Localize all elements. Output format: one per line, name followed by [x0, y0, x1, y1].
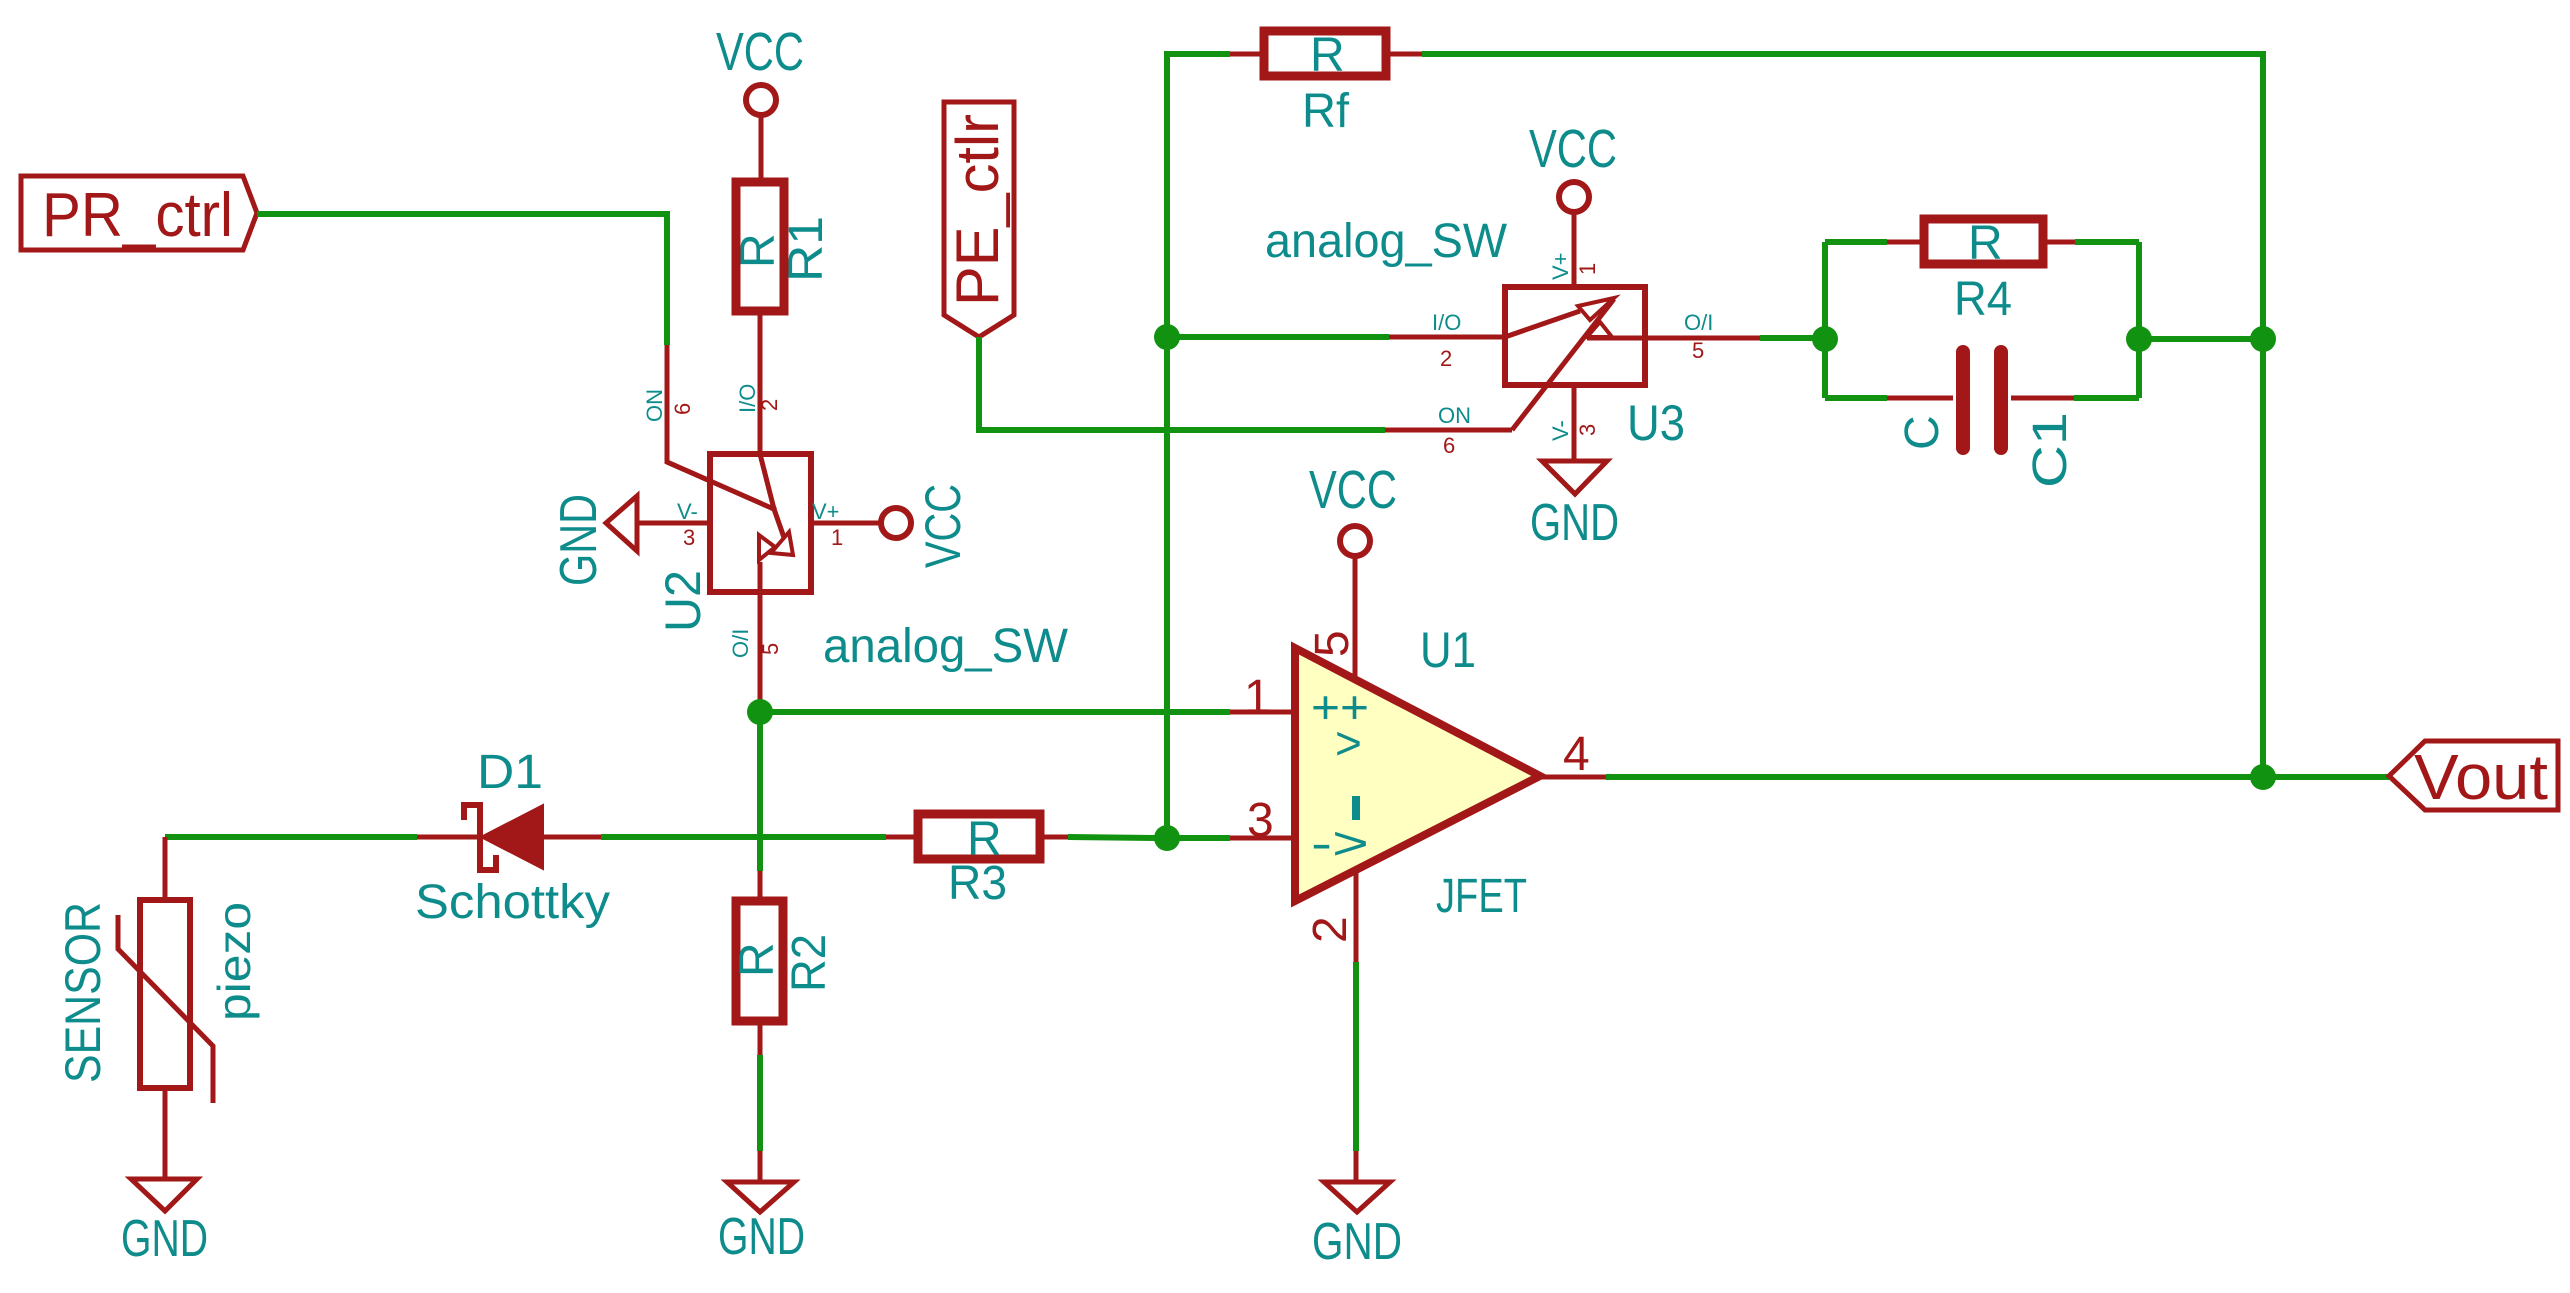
analog switch U2: [667, 454, 811, 592]
svg-text:JFET: JFET: [1436, 870, 1527, 923]
vertical wire Rf column: [1167, 54, 1230, 838]
wire PE_ctlr to U3 pin6: [979, 337, 1385, 430]
svg-text:V+: V+: [812, 499, 840, 524]
svg-text:VCC: VCC: [716, 22, 804, 82]
wire right node to rail: [2139, 336, 2263, 342]
R4/C1 right branch: [2136, 242, 2142, 398]
U2 pin6 stub: [667, 345, 776, 510]
gnd symbol under U3: [1530, 461, 1619, 552]
svg-text:GND: GND: [1312, 1213, 1402, 1271]
svg-text:ON: ON: [1438, 403, 1471, 428]
wire sensor to D1 to R3: [165, 834, 417, 840]
U1 pin1 stub: [1230, 710, 1295, 715]
svg-text:6: 6: [1443, 433, 1455, 458]
svg-text:R2: R2: [783, 934, 836, 992]
svg-text:5: 5: [1692, 338, 1704, 363]
diode D1 schottky: [415, 746, 610, 929]
svg-text:Schottky: Schottky: [415, 876, 610, 929]
wire Rf to right rail: [1422, 54, 2263, 765]
gnd symbol under U1: [1312, 1151, 1402, 1271]
svg-text:Vout: Vout: [2414, 741, 2548, 813]
power symbol VCC at U2 pin1: [881, 484, 971, 568]
C1 branch wires: [1825, 395, 1887, 401]
junction node output/right rail: [2250, 764, 2276, 790]
svg-text:GND: GND: [121, 1210, 208, 1268]
svg-text:C: C: [1896, 415, 1949, 450]
svg-text:U2: U2: [655, 570, 711, 632]
net label Vout: [2389, 741, 2558, 813]
junction node at U2 pin5: [747, 699, 773, 725]
U3 pin3 wire: [1572, 385, 1577, 461]
svg-text:analog_SW: analog_SW: [823, 620, 1069, 673]
wire U3 pin2 from node: [1167, 334, 1389, 340]
svg-text:I/O: I/O: [1432, 310, 1461, 335]
svg-text:->: ->: [1311, 817, 1369, 869]
wire R2 to gnd: [757, 1055, 763, 1151]
svg-text:R: R: [1310, 29, 1345, 82]
op-amp U1: [1295, 648, 1540, 901]
analog switch U3: [1505, 287, 1645, 430]
svg-text:R: R: [731, 942, 784, 977]
wire node to U1 pin1: [760, 709, 1230, 715]
junction node left: [1812, 326, 1838, 352]
svg-text:SENSOR: SENSOR: [55, 902, 111, 1083]
wire R1 bottom to U2 pin2: [758, 315, 763, 454]
svg-text:1: 1: [1244, 671, 1271, 724]
U3 pin6 stub: [1385, 428, 1512, 433]
power symbol VCC above U1: [1309, 460, 1397, 556]
wire node down to R2: [757, 712, 763, 871]
resistor R2: [731, 871, 836, 1055]
svg-text:VCC: VCC: [1529, 119, 1617, 179]
svg-text:V-: V-: [1548, 420, 1573, 441]
svg-text:V+: V+: [1548, 252, 1573, 280]
svg-text:3: 3: [1247, 794, 1274, 847]
U2 pin1 wire: [811, 521, 881, 526]
wire node to U1 pin3: [1167, 835, 1230, 841]
svg-text:GND: GND: [550, 494, 608, 586]
svg-text:O/I: O/I: [728, 629, 753, 658]
svg-text:VCC: VCC: [1309, 460, 1397, 520]
U3 pin5 stub: [1645, 336, 1760, 341]
svg-text:Rf: Rf: [1302, 85, 1350, 138]
power symbol VCC above R1: [716, 22, 804, 180]
wire rail to output node: [2260, 339, 2266, 777]
svg-text:GND: GND: [718, 1208, 805, 1266]
junction node rail: [2250, 326, 2276, 352]
svg-text:O/I: O/I: [1684, 310, 1713, 335]
junction node Rf column / U3 pin2: [1154, 324, 1180, 350]
svg-text:4: 4: [1563, 728, 1590, 781]
resistor R1: [732, 182, 833, 311]
svg-text:2: 2: [1440, 346, 1452, 371]
U1 pin2 wire: [1354, 870, 1359, 962]
svg-text:piezo: piezo: [208, 902, 260, 1021]
svg-text:ON: ON: [642, 389, 667, 422]
junction node right: [2126, 326, 2152, 352]
svg-text:U3: U3: [1627, 395, 1685, 451]
svg-text:R1: R1: [780, 216, 833, 282]
wire U3 pin5 to R4/C1 left node: [1760, 335, 1825, 341]
svg-text:5: 5: [758, 643, 783, 655]
svg-text:2: 2: [1304, 916, 1357, 943]
svg-text:GND: GND: [1530, 494, 1619, 552]
resistor R3: [886, 813, 1068, 910]
svg-text:U1: U1: [1420, 622, 1476, 678]
net label PR_ctrl: [21, 176, 257, 250]
gnd symbol under R2: [718, 1151, 805, 1266]
resistor R4: [1887, 217, 2075, 326]
capacitor C1: [1887, 345, 2077, 488]
svg-text:1: 1: [1575, 263, 1600, 275]
svg-text:R3: R3: [948, 857, 1007, 910]
gnd symbol under sensor: [121, 1088, 208, 1268]
gnd symbol at U2 pin3: [550, 494, 637, 586]
R4/C1 left branch: [1822, 242, 1828, 398]
U1 pin4 output stub: [1540, 775, 1606, 780]
svg-text:R4: R4: [1954, 273, 2012, 326]
svg-text:PR_ctrl: PR_ctrl: [42, 181, 233, 250]
U2 pin5 stub: [758, 592, 763, 703]
svg-text:1: 1: [831, 525, 843, 550]
svg-text:5: 5: [1306, 630, 1359, 657]
svg-text:R: R: [1968, 217, 2003, 270]
svg-text:6: 6: [670, 403, 695, 415]
power symbol VCC above U3: [1529, 119, 1617, 287]
junction node at U1 pin3: [1154, 825, 1180, 851]
hierarchical label PE_ctlr: [944, 102, 1014, 337]
svg-text:3: 3: [1575, 424, 1600, 436]
svg-text:2: 2: [757, 399, 782, 411]
svg-text:3: 3: [683, 525, 695, 550]
svg-text:>: >: [1335, 717, 1362, 769]
wire PR_ctrl to U2 pin6: [257, 214, 667, 345]
wire U1 output to Vout: [1606, 774, 2389, 780]
svg-text:C1: C1: [2024, 412, 2077, 488]
sensor SENSOR piezo: [55, 837, 260, 1103]
svg-text:analog_SW: analog_SW: [1265, 215, 1508, 268]
svg-text:R: R: [732, 233, 785, 268]
svg-text:V-: V-: [677, 499, 698, 524]
svg-text:D1: D1: [477, 746, 543, 799]
resistor Rf: [1230, 29, 1422, 138]
R4 branch wires: [1825, 239, 1887, 245]
svg-text:PE_ctlr: PE_ctlr: [944, 114, 1011, 306]
svg-text:VCC: VCC: [915, 484, 971, 568]
U1 pin5 wire: [1353, 557, 1358, 678]
U2 pin3 wire: [637, 521, 710, 526]
